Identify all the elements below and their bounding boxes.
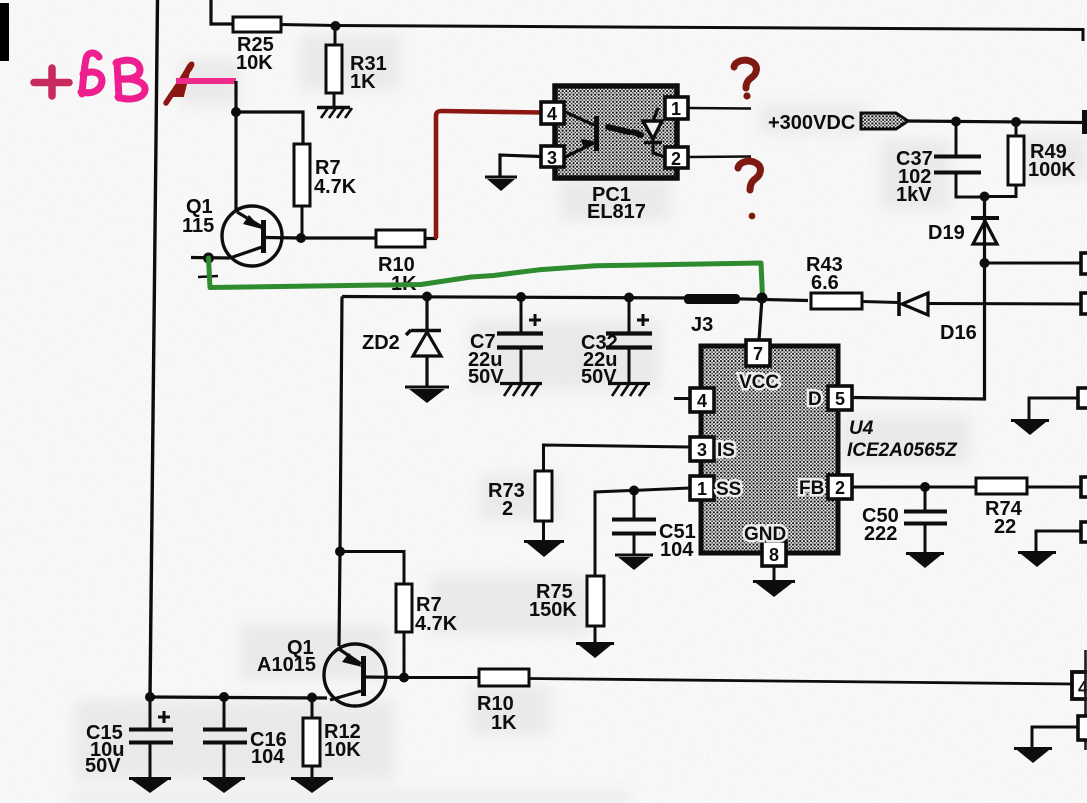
connector right edge tick — [1082, 110, 1087, 134]
node R12 junction — [307, 693, 317, 703]
annotation green jumper wire — [209, 258, 763, 297]
annotation small cross tick — [198, 276, 218, 277]
svg-text:2: 2 — [671, 149, 681, 169]
node C51 junction — [629, 486, 639, 496]
resistor R75 — [529, 576, 604, 643]
wire to R7 top — [236, 112, 303, 144]
node D19 top — [980, 192, 990, 202]
resistor R31 — [326, 45, 387, 107]
diode D19 — [928, 196, 999, 263]
svg-text:4.7K: 4.7K — [314, 176, 357, 198]
resistor R73 — [488, 471, 552, 541]
svg-text:2: 2 — [502, 498, 513, 520]
annotation question mark 1 — [734, 60, 756, 99]
connector edge stub C — [1081, 477, 1087, 497]
capacitor C15 — [85, 697, 173, 778]
node R7/base junction — [296, 233, 306, 243]
ground edge E arrow — [1018, 553, 1056, 568]
svg-text:2: 2 — [835, 478, 845, 498]
svg-text:EL817: EL817 — [587, 201, 646, 223]
label +300VDC — [768, 112, 855, 134]
ground R75 arrow — [576, 644, 614, 659]
annotation question mark 2 — [738, 161, 760, 219]
wire pin3 IS to R73 — [544, 445, 691, 471]
scan edge mark — [0, 3, 9, 61]
connector edge stub G — [1078, 716, 1087, 740]
connector edge stub D — [1078, 388, 1087, 408]
wire pin7 stem — [759, 298, 762, 340]
wire bottom rail — [150, 697, 327, 698]
node D19 bottom junction — [980, 258, 990, 268]
svg-text:ZD2: ZD2 — [362, 332, 400, 354]
resistor R12 — [303, 697, 361, 778]
svg-text:1K: 1K — [491, 712, 517, 734]
ground C32 hatched — [608, 384, 650, 397]
node collector/green junction — [203, 253, 214, 264]
connector edge stub B — [1081, 293, 1087, 314]
ground R73 arrow — [524, 542, 564, 558]
wire pin2 FB line — [852, 486, 976, 489]
wire R10 to edge connector — [529, 679, 1073, 685]
node base junction — [231, 107, 241, 117]
capacitor C37 — [896, 121, 984, 206]
capacitor C7 — [468, 297, 543, 388]
node C15 junction — [145, 692, 155, 702]
svg-text:J3: J3 — [691, 314, 713, 336]
wire pin1 SS line — [595, 488, 690, 576]
svg-text:1: 1 — [671, 99, 681, 119]
annotation dark red scribble — [166, 64, 192, 103]
svg-text:A1015: A1015 — [257, 654, 316, 676]
ground PC1 arrow — [485, 177, 517, 191]
resistor R7 lower — [396, 584, 458, 678]
connector edge stub F — [1072, 650, 1087, 750]
svg-text:115: 115 — [182, 215, 214, 237]
resistor R10 upper — [376, 230, 437, 295]
wire emitter to R10 lower — [404, 676, 479, 679]
svg-text:10K: 10K — [236, 52, 273, 74]
svg-text:1: 1 — [697, 479, 707, 499]
IC U4 ICE2A0565Z — [690, 340, 958, 566]
wire PC1 pin2 stub — [688, 155, 751, 158]
node C16 junction — [219, 692, 229, 702]
node R49 top — [1011, 117, 1021, 127]
wire edge ground G branch — [1032, 727, 1079, 748]
ground C16 arrow — [203, 779, 245, 794]
svg-text:+300VDC: +300VDC — [768, 112, 855, 134]
zener ZD2 — [362, 296, 441, 386]
resistor R10 lower — [477, 669, 529, 734]
capacitor C50 — [862, 487, 947, 553]
svg-text:D: D — [808, 389, 822, 410]
node R7 lower junction — [335, 547, 345, 557]
wire D19 vertical to drain — [852, 263, 985, 399]
wire Q1 emitter riser — [234, 81, 237, 211]
ground pin8 arrow — [753, 582, 795, 598]
svg-text:3: 3 — [697, 440, 707, 460]
diode D16 — [899, 292, 1082, 344]
annotation +BV pink handwriting — [34, 53, 145, 99]
resistor R25 — [233, 17, 281, 74]
resistor R74 — [976, 478, 1082, 538]
connector edge stub E — [1081, 522, 1087, 542]
wire collector stub — [191, 256, 230, 260]
svg-text:1kV: 1kV — [896, 184, 932, 206]
wire VCC rail — [342, 297, 808, 301]
svg-text:SS: SS — [716, 479, 741, 500]
optocoupler PC1 EL817 — [541, 86, 688, 223]
svg-text:50V: 50V — [468, 366, 504, 388]
svg-text:7: 7 — [753, 344, 763, 364]
ground R31 hatched — [317, 108, 352, 119]
svg-text:4.7K: 4.7K — [415, 613, 458, 635]
wire junction to edge connector — [984, 262, 1082, 265]
wire PC1 pin3 to ground — [500, 155, 541, 176]
svg-text:10K: 10K — [324, 739, 361, 761]
svg-text:6.6: 6.6 — [811, 272, 839, 294]
svg-text:104: 104 — [251, 746, 285, 768]
wire 300V rail — [908, 121, 1084, 123]
svg-text:GND: GND — [744, 524, 786, 545]
ground edge G arrow — [1014, 749, 1052, 764]
transistor Q1 lower A1015 — [257, 637, 404, 706]
svg-text:1K: 1K — [350, 71, 376, 93]
connector +300VDC tag — [861, 113, 908, 129]
svg-text:104: 104 — [660, 539, 694, 561]
node pin7 junction — [757, 293, 768, 304]
ground C7 hatched — [500, 384, 542, 397]
resistor R49 — [984, 122, 1076, 197]
svg-text:22: 22 — [994, 516, 1016, 538]
wire R31 stem — [334, 26, 337, 45]
wire to R7 lower — [340, 552, 404, 585]
node C7 — [516, 292, 526, 302]
ground ZD2 arrow — [405, 387, 449, 403]
svg-text:222: 222 — [864, 523, 897, 545]
svg-text:U4: U4 — [849, 418, 874, 439]
svg-text:4: 4 — [547, 104, 557, 124]
transistor Q1 upper — [182, 196, 300, 266]
resistor R43 — [806, 254, 898, 309]
node C32 — [624, 293, 634, 303]
wire edge ground E branch — [1036, 531, 1082, 552]
ground R12 arrow — [291, 779, 333, 794]
wire rail left drop to Q1 lower — [339, 297, 342, 647]
connector edge stub A — [1081, 253, 1087, 274]
capacitor C32 — [581, 297, 652, 388]
svg-text:5: 5 — [835, 389, 845, 409]
svg-text:ICE2A0565Z: ICE2A0565Z — [847, 440, 958, 461]
node C37 top — [951, 117, 961, 127]
wire base to R10 — [301, 236, 376, 239]
wire edge ground D branch — [1029, 398, 1082, 420]
wire pink jumper — [176, 78, 236, 84]
svg-text:8: 8 — [769, 545, 779, 565]
node R25/R31 junction — [331, 21, 341, 31]
ground C50 arrow — [906, 554, 944, 569]
inductor J3 ferrite bead — [684, 294, 740, 336]
capacitor C51 — [612, 491, 696, 561]
svg-text:50V: 50V — [85, 755, 121, 777]
svg-text:3: 3 — [547, 148, 557, 168]
wire left vertical bus — [150, 0, 158, 697]
wire R25 to top rail — [281, 25, 1083, 42]
svg-text:150K: 150K — [529, 599, 577, 621]
svg-text:4: 4 — [697, 391, 707, 411]
svg-text:D19: D19 — [928, 222, 965, 244]
wire PC1 pin1 stub — [688, 107, 751, 110]
capacitor C16 — [203, 697, 287, 778]
svg-text:D16: D16 — [940, 322, 977, 344]
node C50 junction — [920, 482, 930, 492]
svg-text:FB: FB — [799, 478, 824, 499]
svg-text:IS: IS — [717, 440, 735, 461]
ground C15 arrow — [129, 779, 171, 794]
wire top entry — [211, 0, 233, 24]
node ZD2 — [422, 292, 432, 302]
resistor R7 upper — [294, 144, 357, 238]
svg-text:100K: 100K — [1028, 159, 1076, 181]
annotation dark red wire to PC1 pin4 — [436, 111, 541, 237]
ground C51 arrow — [615, 555, 653, 570]
wire pin8 stem — [773, 566, 776, 581]
svg-text:VCC: VCC — [739, 372, 779, 393]
node emitter/R7 junction — [399, 673, 409, 683]
wire pin4 stub — [674, 397, 690, 400]
ground edge D arrow — [1011, 421, 1049, 436]
